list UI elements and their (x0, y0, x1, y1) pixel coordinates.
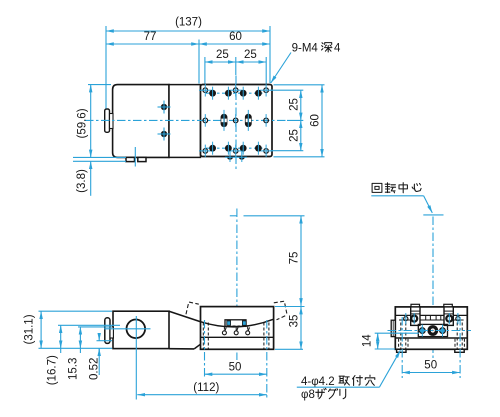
worm end right (440, 328, 446, 334)
svg-text:4-φ4.2: 4-φ4.2 (301, 376, 335, 388)
left block (113, 311, 169, 348)
foot left (397, 349, 406, 352)
svg-text:4: 4 (334, 43, 341, 55)
knob nub (110, 114, 114, 129)
dim 0.52 (98, 334, 100, 341)
phantom tilt flag right (274, 301, 287, 314)
dim 25 vertical upper (300, 90, 302, 120)
mount hole centerlines (401, 317, 403, 378)
9 M4 tapped holes grid (203, 88, 268, 153)
stage block (side) (201, 307, 274, 350)
dim 14 ext lines (375, 332, 419, 334)
dim (59.6) (90, 85, 92, 158)
worm end left (419, 328, 425, 334)
clamp bracket left (411, 307, 420, 326)
svg-text:25: 25 (289, 98, 301, 111)
screw hole small right (456, 317, 460, 321)
phantom tilt flag left (186, 302, 199, 314)
rotation center tick (423, 214, 443, 216)
svg-text:35: 35 (289, 315, 301, 328)
foot right (455, 349, 464, 352)
M4 hole crosshairs (199, 84, 272, 157)
dim (16.7) (60, 325, 62, 348)
svg-text:60: 60 (229, 31, 242, 43)
svg-text:(31.1): (31.1) (23, 314, 35, 344)
ext line 75/35 shared (275, 306, 305, 308)
svg-text:77: 77 (144, 31, 157, 43)
svg-text:(59.6): (59.6) (77, 108, 89, 138)
worm housing (418, 324, 447, 336)
rotation centerline (432, 217, 434, 359)
rail lower line (399, 319, 464, 321)
svg-text:60: 60 (310, 114, 322, 127)
leader 4-phi4.2 (297, 386, 380, 388)
dim 25 right (236, 61, 266, 63)
svg-text:0.52: 0.52 (89, 358, 101, 380)
svg-text:50: 50 (424, 360, 437, 372)
clearance holes upper row (209, 90, 262, 152)
dim 15.3 (79, 327, 81, 348)
leader 9-M4 (271, 53, 291, 84)
body (top view, rounded left corners) (113, 85, 169, 158)
left side ext lines (88, 84, 111, 86)
knob crosshair (104, 328, 151, 330)
base bottom continuation (169, 348, 194, 350)
moving plate (top view) (201, 85, 273, 157)
body screw hole upper (161, 104, 167, 110)
svg-text:(112): (112) (193, 382, 219, 394)
dim 25 vertical lower (300, 120, 302, 150)
dim (137) (106, 30, 270, 32)
left stack ext lines (39, 310, 113, 312)
knob nub (side) (110, 327, 113, 338)
clearance hole vertical ticks (213, 87, 259, 155)
rail knurl ticks (426, 316, 441, 320)
dim (31.1) (40, 311, 42, 348)
screw head right (446, 316, 452, 322)
slot hole right (245, 114, 252, 127)
horizontal centerline rear view (388, 330, 472, 332)
dim 50 (rear view) (402, 372, 460, 374)
svg-text:14: 14 (362, 334, 374, 347)
hidden dashes above plungers (223, 327, 225, 331)
hidden hole lines left (202, 323, 204, 349)
mid section (169, 85, 201, 158)
knob circle (127, 320, 146, 339)
knob bar (side) (105, 318, 110, 344)
carriage screws (227, 321, 231, 325)
side view vertical centerline (236, 209, 238, 361)
dim 25 left (205, 61, 236, 63)
ext line 77|60 divider (198, 40, 200, 84)
svg-text:25: 25 (244, 49, 257, 61)
svg-text:25: 25 (216, 49, 229, 61)
ext line right (137)/60 (269, 26, 271, 83)
clamp bracket right (444, 307, 453, 326)
corner notch diagonal (194, 344, 200, 349)
svg-text:(137): (137) (175, 17, 202, 29)
base split line (201, 336, 274, 338)
clamp top protrusion right (444, 304, 453, 307)
carriage block (225, 320, 246, 327)
dim 35 (300, 307, 302, 350)
right side ext lines (271, 89, 304, 91)
sensor tab 2 (138, 157, 146, 161)
dim 50 (side view) (205, 373, 267, 375)
wedge diagonal (169, 311, 201, 322)
centerline through upper clearance holes (206, 92, 265, 94)
svg-text:9-M4: 9-M4 (292, 43, 319, 55)
dim (112) (137, 394, 266, 396)
ext line left (137)/77 (105, 26, 107, 109)
svg-text:(3.8): (3.8) (76, 169, 88, 193)
body screw hole lower (161, 131, 167, 137)
svg-text:50: 50 (229, 362, 242, 374)
plunger circles (222, 331, 226, 335)
crosshair ticks rear view (406, 313, 458, 337)
knob (top view) (105, 109, 110, 132)
clamp top protrusion left (411, 304, 420, 307)
lower edge bump holes (227, 156, 234, 159)
hole centerlines to 50 dim (204, 320, 206, 379)
dim 60 vertical (321, 85, 323, 157)
rear block (395, 307, 467, 349)
slot hole left (221, 114, 228, 127)
dim 14 (377, 333, 379, 349)
rotation center label (372, 183, 382, 192)
plate vertical centerline (235, 76, 237, 171)
dim 77 (106, 43, 199, 45)
sensor tab 1 (126, 157, 135, 161)
centerline through lower clearance holes (206, 147, 265, 149)
sensor center mark (134, 147, 136, 167)
dim 75 (300, 216, 302, 306)
hidden hole lines right (263, 323, 265, 349)
hidden mount holes (399, 323, 465, 349)
screw hole small left (404, 317, 408, 321)
center shaft donut (427, 325, 438, 336)
rotation center leader (371, 195, 423, 197)
svg-text:75: 75 (289, 252, 301, 265)
dim (3.8) (90, 161, 92, 196)
screw head left (411, 316, 417, 322)
concave slide curve (201, 319, 274, 327)
centerline horizontal top view (85, 119, 286, 121)
knob end tab (391, 320, 395, 336)
svg-text:φ8: φ8 (301, 389, 315, 401)
dim 60 horizontal (199, 43, 270, 45)
base split line (395, 337, 467, 339)
svg-text:(16.7): (16.7) (47, 355, 59, 385)
rotation center ext line (left view) (230, 215, 237, 217)
ext lines 25/25 columns (204, 57, 206, 84)
svg-text:15.3: 15.3 (68, 358, 80, 380)
upper split line (395, 314, 467, 316)
svg-text:25: 25 (289, 129, 301, 142)
